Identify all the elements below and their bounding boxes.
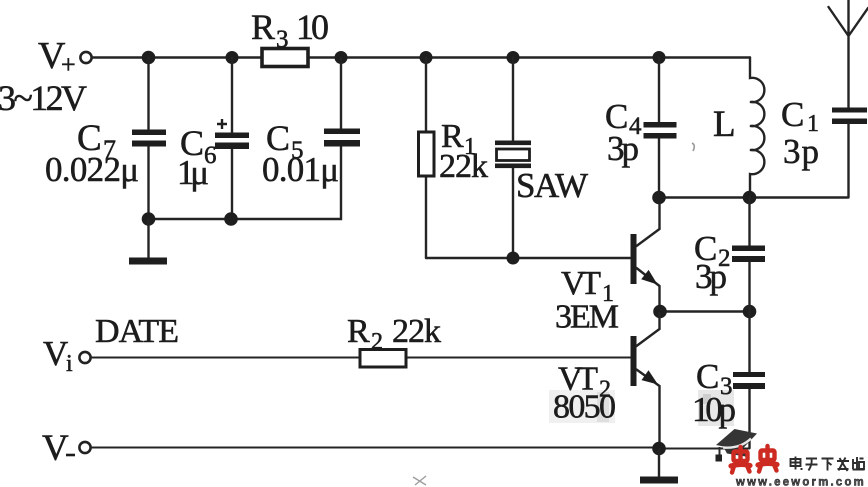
label Vi	[43, 334, 73, 377]
antenna	[829, 0, 868, 108]
label R3 10	[251, 7, 329, 53]
capacitor C6	[215, 119, 249, 149]
node mid rail junction C6	[224, 212, 238, 226]
wire SAW branch	[512, 58, 514, 259]
node top rail junction 6	[653, 51, 666, 64]
transistor VT2	[631, 313, 660, 449]
inductor L	[750, 58, 764, 198]
svg-text:2: 2	[371, 329, 383, 355]
resistor R1	[419, 132, 435, 176]
capacitor C1	[832, 108, 867, 198]
capacitor C5	[324, 129, 360, 147]
wire C7 branch	[147, 58, 149, 220]
node top rail junction 3	[335, 51, 348, 64]
terminal V-	[79, 442, 90, 453]
wire V- rail	[91, 448, 750, 449]
svg-text:3~12V: 3~12V	[0, 78, 87, 118]
label C6	[180, 123, 217, 169]
label VT2	[558, 361, 611, 403]
wire emitter rail	[659, 310, 750, 312]
wire tank rail	[659, 196, 848, 198]
crystal SAW	[495, 141, 531, 169]
svg-text:3EM: 3EM	[555, 299, 619, 336]
svg-text:VT: VT	[561, 265, 601, 302]
transistor VT1	[631, 204, 660, 311]
wire Vi input	[91, 357, 631, 359]
node SAW bottom junction	[507, 252, 520, 265]
svg-text:i: i	[66, 351, 73, 377]
svg-text:L: L	[713, 104, 736, 145]
node tank junction L	[743, 191, 757, 205]
node emitter junction	[653, 305, 667, 319]
svg-text:R: R	[251, 7, 275, 47]
label V+	[38, 35, 76, 79]
svg-text:10p: 10p	[692, 390, 736, 429]
artifact mark near C4	[692, 143, 694, 151]
label C2	[694, 229, 731, 272]
artifact mark bottom	[413, 476, 426, 485]
svg-text:8050: 8050	[553, 389, 616, 426]
svg-text:22k: 22k	[439, 148, 488, 185]
label R2 22k	[347, 313, 441, 355]
svg-text:1μ: 1μ	[177, 153, 209, 192]
svg-text:V: V	[42, 428, 69, 469]
node mid rail junction C7	[142, 212, 156, 226]
capacitor C3	[733, 372, 765, 389]
label C4	[605, 97, 642, 140]
terminal Vi	[79, 352, 90, 363]
capacitor C4	[644, 122, 677, 139]
watermark text dianzi xiazaizhan	[791, 457, 865, 472]
svg-text:R: R	[347, 313, 370, 350]
svg-text:V: V	[43, 334, 68, 373]
label C1	[781, 95, 819, 137]
svg-text:DATE: DATE	[95, 313, 179, 350]
svg-text:3p: 3p	[783, 132, 819, 171]
svg-text:www.eeworm.com: www.eeworm.com	[735, 475, 866, 487]
watermark chongchong char 2	[758, 446, 777, 472]
ground top-left	[129, 219, 167, 265]
node top rail junction 5	[507, 51, 520, 64]
svg-text:0.022μ: 0.022μ	[45, 150, 139, 189]
watermark remnant box 10p	[698, 390, 734, 426]
wire C6 branch	[231, 58, 233, 220]
svg-text:10: 10	[296, 7, 329, 47]
svg-text:+: +	[61, 50, 76, 79]
node top rail junction 2	[226, 51, 239, 64]
node top rail junction 1	[142, 51, 156, 65]
wire C3 branch	[748, 312, 750, 449]
svg-text:3p: 3p	[695, 257, 727, 296]
svg-text:0.01μ: 0.01μ	[262, 150, 339, 189]
wire C5 branch	[149, 58, 342, 220]
capacitor C2	[732, 246, 765, 263]
resistor R2	[360, 350, 406, 368]
node V- junction	[652, 442, 666, 456]
wire C4 branch	[658, 58, 660, 198]
svg-text:3: 3	[276, 26, 289, 53]
label V-	[42, 428, 75, 469]
wire C2 branch	[748, 198, 750, 312]
label C7	[77, 118, 116, 164]
label VT1	[561, 265, 614, 307]
watermark chongchong char 1	[731, 447, 750, 473]
label R1	[441, 118, 476, 160]
ground bottom	[640, 449, 678, 484]
resistor R3	[262, 49, 308, 67]
watermark graduation cap	[716, 429, 758, 462]
watermark remnant behind 8050	[549, 390, 615, 423]
node emitter junction right	[743, 305, 757, 319]
node tank junction C4	[652, 191, 666, 205]
terminal V+	[80, 52, 91, 63]
svg-text:22k: 22k	[392, 313, 441, 350]
capacitor C7	[132, 130, 166, 147]
wire top rail	[92, 56, 750, 58]
node top rail junction 4	[420, 51, 433, 64]
svg-text:C: C	[781, 95, 804, 134]
label C5	[266, 118, 304, 164]
svg-text:3p: 3p	[607, 129, 639, 168]
wire base rail VT1	[426, 257, 630, 259]
svg-text:SAW: SAW	[516, 166, 588, 205]
wire R1 branch	[425, 58, 427, 259]
label C3	[696, 357, 733, 400]
